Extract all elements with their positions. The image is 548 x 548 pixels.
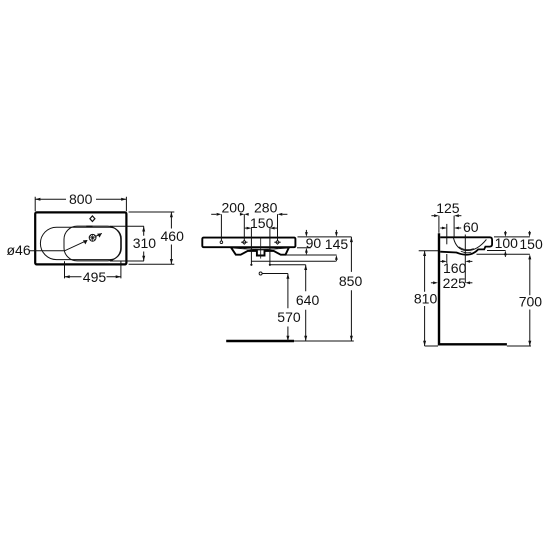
bowl section inner arc (453, 238, 486, 251)
svg-text:495: 495 (83, 269, 107, 285)
dimension 800 arrowheads (35, 198, 40, 201)
dimension 280 right arrow and stub (278, 213, 283, 216)
dimension 800 line (35, 198, 126, 200)
left tap hole (circle) (220, 241, 223, 244)
fixing hole centreline (side) (446, 224, 448, 244)
shared double arrowhead at centre hole (240, 213, 244, 216)
tap hole extension line (453, 216, 455, 237)
slab bottom extension line (297, 247, 311, 249)
dimension 310 extension lines (110, 226, 144, 261)
dimension 800 extension lines (35, 197, 126, 211)
dimension 640 line (305, 265, 307, 341)
extension line right hole (277, 214, 279, 240)
bowl outline (495 x 310) (64, 226, 121, 261)
drain hole circle (89, 234, 96, 241)
overflow slot mark (86, 226, 92, 228)
svg-text:150: 150 (519, 236, 543, 252)
wall line (438, 233, 440, 345)
reference line from right dot to 640 (270, 264, 306, 266)
dimension 570 line (287, 274, 289, 342)
dimension 495 line (65, 276, 121, 278)
dimension 700 top arrow (528, 254, 531, 259)
drain recess arc 2 (461, 251, 472, 253)
svg-text:280: 280 (254, 200, 278, 216)
drain centreline (side) (464, 235, 466, 283)
dimension 150 right arrow and stub (270, 227, 275, 230)
svg-text:570: 570 (277, 309, 301, 325)
svg-text:800: 800 (69, 191, 93, 207)
scallop bottom reference line (286, 254, 337, 256)
inner bowl front arc (244, 248, 279, 250)
dimension 150 (side) top arrow (529, 231, 531, 233)
dimension 160 right arrow (465, 260, 470, 263)
floor extension line (294, 340, 354, 342)
svg-text:850: 850 (339, 273, 363, 289)
dimension 460 arrowheads (170, 212, 173, 217)
dimension 145 arrows (335, 230, 337, 233)
fixing hole line right (269, 228, 271, 265)
leader arrowhead at drain (83, 240, 88, 244)
svg-text:200: 200 (222, 200, 246, 216)
leader exit segment (96, 233, 102, 236)
svg-text:700: 700 (519, 294, 543, 310)
dimension 460 line (170, 212, 172, 264)
svg-text:125: 125 (436, 200, 460, 216)
dimension 150 left arrow and stub (245, 227, 247, 229)
810 top reference line (419, 250, 438, 252)
dimension 850 line (350, 237, 352, 341)
leader line from ø46 to drain (30, 240, 87, 250)
dimension 810 line (425, 251, 438, 346)
svg-text:60: 60 (463, 219, 479, 235)
dimension 60 right arrow (454, 227, 459, 230)
fixing hole end dot right (269, 264, 271, 266)
drain recess arc 1 (459, 247, 474, 250)
extension line left hole (220, 214, 222, 240)
svg-text:90: 90 (306, 235, 322, 251)
front slab outline (202, 238, 295, 248)
svg-text:160: 160 (443, 260, 467, 276)
dimension 225 right arrow (465, 281, 470, 284)
dimension 100 bottom arrow (504, 251, 507, 256)
centreline of bowl (260, 237, 262, 258)
deck top reference line (494, 236, 530, 238)
right tap hole (diamond) (274, 240, 281, 244)
svg-text:810: 810 (414, 290, 438, 306)
fixing hole end dot left (250, 264, 252, 266)
fixing hole tick lower (side) (446, 254, 448, 263)
fixing hole line left (250, 228, 252, 265)
dimension 225 left arrow (431, 282, 434, 284)
dimension 160 left arrow (440, 260, 442, 262)
svg-text:ø46: ø46 (7, 242, 31, 258)
tap hole (top view) (90, 216, 95, 222)
drain hole hatch (89, 234, 96, 241)
dimension 495 extension lines (65, 261, 121, 278)
dimension 460 extension lines (129, 212, 175, 264)
leader exit arrowhead (97, 233, 102, 237)
dimension 100 top arrow (504, 231, 506, 233)
svg-text:640: 640 (296, 292, 320, 308)
wall extension line for 125 (438, 216, 440, 233)
fixing screw circle (570 reference) (259, 272, 262, 275)
svg-text:100: 100 (495, 235, 519, 251)
basin top-view outer rim rectangle (35, 212, 126, 264)
top reference line to 850 (298, 236, 352, 238)
floor line (front view) (226, 340, 294, 342)
extension line centre hole (243, 214, 245, 240)
svg-text:460: 460 (161, 228, 185, 244)
dimension 125 left arrow (431, 215, 434, 217)
floor line (side view) (438, 343, 507, 345)
shelf recess outline (40, 227, 121, 259)
150 bottom reference line (700 top) (477, 253, 530, 255)
leader from circle to 570 (262, 273, 288, 275)
dimension 90 arrows (305, 230, 307, 233)
dimension 700 line (529, 259, 531, 346)
dimension 495 arrowheads (65, 275, 70, 278)
svg-text:150: 150 (250, 215, 274, 231)
bowl front edge arc (233, 248, 290, 249)
basin side profile (440, 237, 492, 254)
dimension 310 line (143, 226, 145, 261)
svg-text:310: 310 (133, 235, 157, 251)
dimension 200 left arrow and stub (211, 213, 216, 215)
centre tap hole (diamond) (241, 240, 248, 244)
front apron profile with scallops (231, 247, 289, 255)
floor extension (side view) (507, 345, 531, 347)
dimension 310 arrowheads (142, 226, 145, 231)
svg-text:225: 225 (443, 275, 467, 291)
dimension 125 right arrow (454, 214, 459, 217)
100 bottom reference line (487, 250, 506, 252)
reference line at fixing holes level (251, 260, 336, 262)
dimension 60 left arrow (440, 227, 442, 229)
svg-text:145: 145 (325, 236, 349, 252)
